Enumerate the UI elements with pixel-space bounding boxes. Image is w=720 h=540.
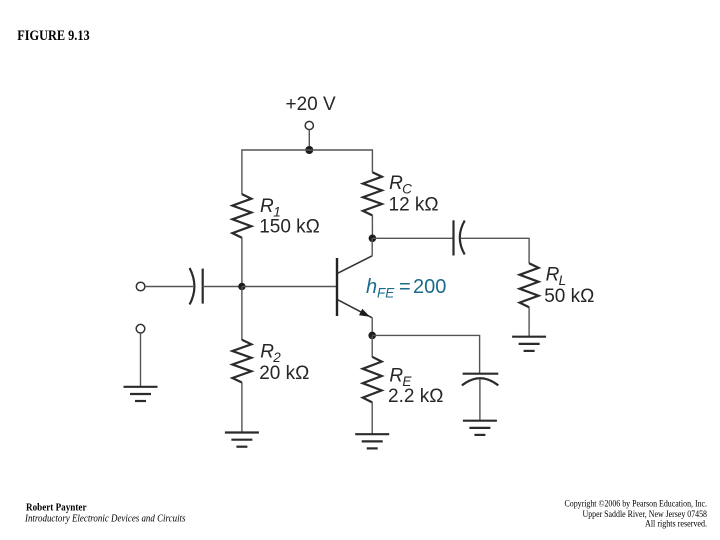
- wire top rail: [242, 149, 373, 151]
- lower input terminal circle: [136, 324, 145, 333]
- svg-text:R: R: [260, 341, 274, 362]
- node supply junction dot: [305, 146, 313, 154]
- label 20 kOhm: [259, 363, 309, 384]
- svg-text:200: 200: [413, 276, 446, 298]
- ground under bypass capacitor: [463, 421, 497, 435]
- wire capacitor to RL corner: [461, 238, 530, 263]
- label RL: [546, 265, 567, 289]
- ground under RL: [512, 337, 546, 351]
- svg-text:Upper Saddle River, New Jersey: Upper Saddle River, New Jersey 07458: [583, 509, 708, 519]
- label RE: [389, 365, 412, 389]
- wire R1 to base node: [241, 238, 243, 287]
- wire rail to R1: [241, 149, 243, 194]
- svg-text:R: R: [546, 265, 560, 286]
- svg-text:All rights reserved.: All rights reserved.: [645, 519, 707, 529]
- label +20 V: [286, 94, 337, 115]
- transistor Q1 base bar: [336, 258, 338, 316]
- ground under RE: [355, 434, 389, 448]
- resistor RE: [363, 357, 382, 403]
- ground under R2: [225, 433, 259, 447]
- wire RL to ground: [528, 307, 530, 337]
- label 2.2 kOhm: [388, 386, 443, 407]
- input terminal circle: [136, 282, 145, 291]
- wire collector vertical: [371, 238, 373, 256]
- wire emitter vertical: [371, 318, 373, 336]
- label hFE = 200: [366, 276, 446, 300]
- resistor RC: [363, 172, 382, 215]
- footer book title: [24, 513, 185, 524]
- wire RC to collector node: [371, 215, 373, 238]
- svg-text:R: R: [260, 196, 274, 217]
- svg-text:Introductory Electronic Device: Introductory Electronic Devices and Circ…: [24, 513, 185, 524]
- svg-text:2.2 kΩ: 2.2 kΩ: [388, 386, 443, 407]
- wire R2 to ground: [241, 382, 243, 432]
- svg-text:50 kΩ: 50 kΩ: [544, 286, 594, 307]
- label 12 kOhm: [389, 194, 439, 215]
- title FIGURE 9.13: [17, 28, 90, 44]
- wire emitter node to bypass capacitor: [372, 335, 479, 373]
- wire bypass capacitor to ground: [479, 380, 481, 421]
- wire base node to transistor base: [242, 286, 337, 288]
- capacitor C2 output coupling curved plate: [460, 221, 465, 255]
- resistor R2: [232, 340, 251, 383]
- capacitor C2 output coupling straight plate: [452, 220, 454, 255]
- svg-text:12 kΩ: 12 kΩ: [389, 194, 439, 215]
- wire base node to R2: [241, 287, 243, 341]
- wire input terminal to capacitor: [145, 286, 193, 288]
- ground input: [124, 387, 158, 401]
- footer copyright line 3: [645, 519, 707, 529]
- wire emitter to RE: [371, 335, 373, 357]
- svg-text:Copyright ©2006 by Pearson Edu: Copyright ©2006 by Pearson Education, In…: [565, 498, 708, 508]
- node base dot: [238, 283, 245, 290]
- svg-text:20 kΩ: 20 kΩ: [259, 363, 309, 384]
- svg-text:150 kΩ: 150 kΩ: [259, 217, 320, 238]
- label R1: [260, 196, 281, 220]
- resistor R1: [232, 194, 251, 238]
- label 50 kOhm: [544, 286, 594, 307]
- svg-text:=: =: [399, 276, 411, 298]
- footer copyright line 2: [583, 509, 708, 519]
- wire supply terminal to rail: [308, 130, 310, 150]
- label R2: [260, 341, 281, 365]
- node emitter dot: [368, 332, 376, 340]
- svg-text:h: h: [366, 276, 377, 298]
- wire capacitor to base node: [203, 286, 242, 288]
- transistor Q1 emitter arrowhead: [359, 309, 370, 317]
- svg-text:R: R: [389, 173, 403, 194]
- capacitor CE bypass top plate: [463, 373, 499, 375]
- wire lower terminal to ground: [140, 333, 142, 387]
- transistor Q1 emitter diagonal: [338, 300, 372, 318]
- transistor Q1 collector diagonal: [338, 256, 372, 273]
- svg-text:FIGURE 9.13: FIGURE 9.13: [17, 28, 90, 44]
- wire RE to ground: [371, 402, 373, 434]
- svg-text:R: R: [389, 365, 403, 386]
- label 150 kOhm: [259, 217, 320, 238]
- footer author name: [26, 502, 87, 513]
- supply terminal circle: [305, 121, 313, 129]
- svg-text:FE: FE: [377, 285, 395, 300]
- resistor RL: [520, 263, 539, 307]
- capacitor CE bypass curved plate: [462, 378, 498, 385]
- svg-text:+20 V: +20 V: [286, 94, 337, 115]
- capacitor C1 input coupling straight plate: [202, 269, 204, 304]
- node collector dot: [369, 235, 377, 243]
- label RC: [389, 173, 412, 197]
- svg-text:Robert Paynter: Robert Paynter: [26, 502, 87, 513]
- wire rail to RC: [371, 149, 373, 172]
- capacitor C1 input coupling curved plate: [190, 268, 195, 305]
- footer copyright line 1: [565, 498, 708, 508]
- wire collector node to output capacitor: [372, 237, 453, 239]
